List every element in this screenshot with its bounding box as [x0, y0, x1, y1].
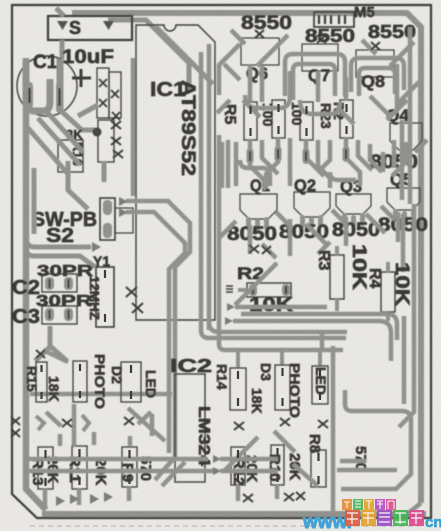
switch S2 body — [115, 208, 133, 233]
pad R2 a — [249, 284, 257, 296]
photo sensor outline left — [121, 362, 141, 402]
connector pins — [319, 15, 345, 24]
resistor R20 outline — [244, 102, 257, 140]
pad C3 b — [64, 308, 73, 321]
wire horizontal bundle y307-322 — [233, 307, 397, 361]
pad arrow in S left — [57, 21, 68, 30]
small pad left of R2 — [226, 286, 233, 292]
capacitor C2 outline — [42, 274, 77, 292]
pad S2 a — [103, 200, 112, 215]
wire C1 left U trace — [26, 60, 50, 111]
resistor R22 outline — [300, 102, 313, 140]
pad dot — [93, 128, 102, 137]
pin x marks R18 — [111, 90, 120, 120]
pad I marks C2 C3 — [50, 279, 69, 319]
pad arrows bottom row — [56, 494, 79, 506]
resistor R3 outline — [330, 255, 344, 299]
resistor R17 tall outline — [97, 68, 109, 118]
transistor Q2 outline — [294, 192, 330, 217]
led outline mid — [312, 366, 328, 404]
wire C1 right vertical — [57, 59, 64, 111]
pad arrow bundle a — [227, 303, 235, 311]
pin x marks scattered bottom — [11, 30, 380, 502]
resistor R18 tall outline — [109, 72, 121, 118]
IC2 outline — [175, 374, 205, 482]
wire diagonal across R2 — [235, 263, 277, 305]
pad C2 b — [64, 277, 73, 290]
IC1 outline — [136, 25, 215, 320]
plus mark C1 — [72, 69, 91, 87]
pad C2 a — [45, 277, 54, 290]
wire sensor row horizontal — [30, 392, 172, 397]
wire diagonal mesh transistor area — [217, 30, 419, 124]
pad squiggle b — [82, 415, 89, 431]
wire stub t — [320, 332, 325, 350]
crystal Y1 outline — [96, 267, 114, 327]
pad C1 a — [26, 82, 33, 108]
pad arrow in S right — [103, 21, 114, 30]
wire IC2 exit diagonals — [155, 457, 185, 486]
switch S2 outline — [100, 198, 115, 240]
diode D4 outline — [73, 361, 87, 402]
wire inner vertical — [331, 346, 336, 512]
transistor Q7 outline — [302, 44, 338, 71]
transistor Q8 outline — [356, 50, 394, 77]
resistor R13 outline — [38, 447, 53, 489]
wire inner P shape bottom right — [341, 390, 411, 489]
wire left bundle — [26, 238, 95, 267]
resistor R16 outline — [58, 140, 83, 172]
resistor R14 outline — [230, 368, 246, 410]
wire outer vertical — [217, 135, 222, 332]
pad arrows bottom mid b — [213, 467, 221, 475]
pad S2 b — [103, 223, 112, 238]
pin x marks R17 — [99, 79, 107, 107]
pad I marks — [30, 88, 60, 106]
resistor R15 outline — [36, 362, 47, 402]
wire stubs to sensor boxes — [238, 352, 320, 368]
resistor R11 outline — [72, 446, 87, 489]
transistor Q4 outline — [390, 123, 422, 150]
resistor R10 outline — [271, 445, 284, 485]
transistor Q3 outline — [336, 194, 371, 214]
resistor R12 outline — [231, 447, 245, 485]
resistor R9 outline — [122, 447, 137, 487]
capacitor C3 outline — [42, 306, 77, 324]
wire stub — [78, 105, 98, 116]
wire IC1 right verticals — [201, 44, 209, 330]
wire diagonals C1 to SW-PB — [28, 112, 83, 174]
transistor Q1 outline — [240, 194, 277, 219]
diode D3 outline — [275, 365, 290, 410]
resistor R21 outline — [272, 100, 285, 138]
transistor Q6 outline — [241, 38, 279, 65]
pad R2 b — [282, 284, 290, 296]
wire mid pair to IC2 — [126, 201, 190, 457]
wire bottom horizontals — [26, 404, 278, 507]
ground ring trace left — [26, 58, 46, 510]
switch S1 box — [48, 16, 132, 40]
resistor R23 outline — [340, 100, 353, 138]
pad squiggle a — [36, 416, 44, 430]
pad stubs R3 R4 — [337, 246, 388, 321]
pad arrow mid b — [119, 208, 128, 217]
wire right verticals — [397, 27, 427, 404]
pad C1 b — [56, 82, 63, 113]
ground ring trace top — [72, 13, 421, 503]
resistor R8 outline — [311, 450, 326, 487]
wire C1 to R16 — [60, 110, 97, 131]
pad arrow mid a — [119, 197, 128, 206]
wire IC1 left vertical — [131, 58, 136, 196]
pad arrows bottom mid a — [213, 455, 221, 463]
pin x marks Y1 — [126, 287, 143, 313]
resistor R4 outline — [381, 272, 395, 312]
connector box top — [314, 12, 354, 27]
pad column with x marks — [98, 120, 114, 162]
transistor Q5 outline — [387, 188, 420, 210]
wire big diagonal IC1 — [156, 27, 213, 84]
pad arrow bundle b — [225, 317, 233, 325]
watermark line1 — [302, 499, 441, 531]
wire 8050 row to R column — [219, 206, 398, 258]
pads transistor band — [247, 146, 350, 164]
ground ring trace bottom — [42, 511, 426, 517]
wire second top trace — [108, 20, 189, 92]
resistor R2 outline — [247, 283, 291, 297]
wire right side arcs to bottom — [399, 204, 421, 514]
wire diag into R15 — [43, 350, 68, 362]
wire R16 down — [102, 161, 107, 182]
wire S2 feed — [34, 161, 88, 234]
wire bundle turn right y335 — [201, 322, 347, 350]
wire S to ring — [56, 8, 64, 59]
wire bottom diagonals — [46, 408, 397, 486]
wire verticals transistor band — [222, 65, 406, 190]
pads under Q1 Q2 Q3 Q5 — [246, 209, 416, 232]
pad I marks inside component outlines — [42, 104, 347, 486]
wire below C3 — [35, 326, 67, 361]
scan artifact line bottom — [30, 525, 420, 527]
pad C3 a — [45, 308, 54, 321]
capacitor C1 circle — [17, 56, 77, 116]
